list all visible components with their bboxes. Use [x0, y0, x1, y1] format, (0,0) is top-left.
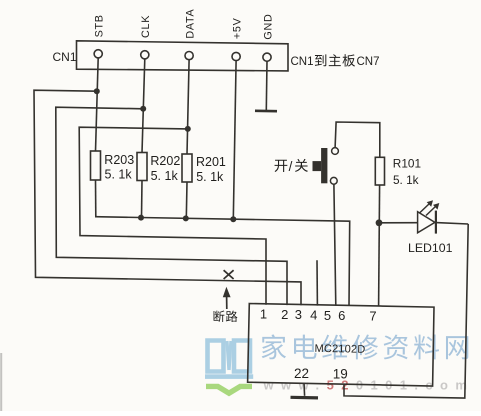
connector CN1: [77, 41, 289, 71]
svg-text:+5V: +5V: [231, 17, 243, 39]
resistor R203: [91, 151, 101, 180]
svg-text:1: 1: [260, 307, 267, 322]
svg-text:/: /: [289, 159, 293, 174]
svg-text:22: 22: [294, 366, 309, 381]
wire +5V rail: [95, 217, 350, 306]
svg-text:STB: STB: [94, 14, 106, 37]
wire IC pin 22 to ground: [303, 383, 306, 395]
pin GND: [262, 14, 274, 62]
node dot DATA tap: [185, 126, 191, 132]
resistor R201: [182, 154, 192, 182]
wire LED cathode right: [436, 223, 468, 224]
junction dot rail R201: [183, 215, 189, 221]
label R203 value: [104, 153, 134, 182]
wire R202 bottom to rail: [141, 181, 144, 218]
wire right side down to pin 19: [344, 224, 468, 398]
svg-text:R203: R203: [104, 153, 134, 167]
wire GND column: [265, 61, 268, 110]
pin CLK: [140, 15, 152, 59]
resistor R101: [375, 157, 384, 185]
scan edge mark: [0, 353, 2, 411]
svg-text:LED101: LED101: [408, 241, 453, 255]
wire R203 bottom to rail: [95, 180, 97, 217]
svg-text:CLK: CLK: [140, 15, 152, 38]
svg-text:19: 19: [333, 367, 348, 382]
svg-text:R101: R101: [393, 157, 421, 171]
junction dot rail +5V: [230, 216, 236, 222]
wire R101 bottom to IC pin 7: [379, 185, 380, 306]
pin +5V: [231, 17, 243, 60]
svg-text:5. 1k: 5. 1k: [393, 173, 419, 187]
svg-text:CN1: CN1: [291, 56, 314, 68]
watermark book icon: [205, 341, 253, 394]
svg-text:GND: GND: [262, 14, 274, 40]
resistor R202: [137, 153, 147, 181]
svg-text:MC2102D: MC2102D: [314, 343, 365, 356]
wire DATA to IC pin 1: [79, 127, 266, 305]
svg-text:5. 1k: 5. 1k: [151, 169, 179, 183]
wire switch top to R101 top: [335, 122, 380, 157]
wire STB to IC pin 3: [34, 90, 301, 305]
node dot STB tap: [94, 88, 100, 94]
wire CLK to IC pin 2: [56, 107, 287, 305]
switch push button: [313, 148, 339, 185]
ground symbol (pin 22): [291, 396, 319, 400]
svg-text:7: 7: [369, 309, 376, 324]
arrow pointing at break: [223, 287, 231, 309]
wire STB column: [96, 58, 99, 152]
junction dot R101/LED: [376, 219, 383, 226]
break mark X: [224, 270, 234, 279]
IC pin numbers: [260, 307, 377, 324]
wire R201 bottom to rail: [185, 182, 188, 218]
wire +5V column: [233, 60, 236, 219]
label switch kai/guan: [275, 159, 308, 174]
wire CLK column: [142, 59, 145, 153]
svg-text:CN7: CN7: [357, 56, 380, 68]
label R201 value: [196, 155, 226, 184]
LED101 diode: [418, 200, 440, 233]
IC MC2102D: [248, 304, 434, 387]
svg-text:6: 6: [338, 308, 345, 323]
junction dot rail R202: [138, 215, 144, 221]
label duanlu (break): [214, 311, 238, 322]
watermark text jiadian weixiu ziliao wang: [262, 334, 469, 359]
svg-text:5. 1k: 5. 1k: [196, 170, 224, 184]
svg-text:4: 4: [310, 308, 317, 323]
svg-text:5. 1k: 5. 1k: [105, 168, 133, 182]
wire IC pin 4 stub: [316, 260, 318, 305]
pin STB: [94, 14, 106, 58]
svg-text:5: 5: [324, 308, 331, 323]
label R202 value: [150, 154, 180, 183]
svg-text:DATA: DATA: [184, 9, 196, 39]
node dot CLK tap: [140, 106, 146, 112]
label CN1 to mainboard CN7: [291, 54, 380, 68]
wire to LED anode: [379, 222, 418, 224]
svg-text:2: 2: [281, 307, 288, 322]
wire switch bottom to IC pin 5: [334, 184, 336, 306]
svg-text:R202: R202: [150, 154, 180, 168]
svg-text:CN1: CN1: [53, 50, 77, 64]
svg-text:3: 3: [295, 307, 302, 322]
pin DATA: [184, 9, 196, 60]
wire DATA column: [187, 59, 189, 154]
ground symbol (GND pin): [255, 109, 277, 112]
label R101 value: [393, 157, 421, 187]
svg-text:R201: R201: [196, 155, 226, 169]
